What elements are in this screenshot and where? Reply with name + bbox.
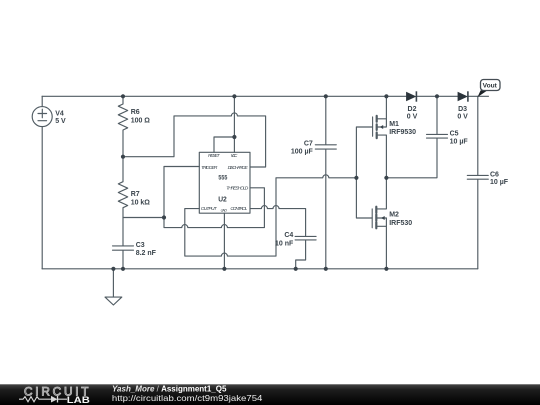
node A R6/R7/discharge junction xyxy=(121,155,125,159)
pin RESET xyxy=(208,153,221,159)
label C5 value 10 uF xyxy=(450,138,469,145)
svg-text:LAB: LAB xyxy=(67,395,90,405)
svg-text:D3: D3 xyxy=(458,106,467,113)
label D2 value 0 V xyxy=(407,113,418,120)
svg-text:Yash_More / Assignment1_Q5: Yash_More / Assignment1_Q5 xyxy=(112,384,227,393)
svg-text:100 Ω: 100 Ω xyxy=(131,117,151,124)
label C6 designator xyxy=(490,171,499,178)
svg-text:THRESHOLD: THRESHOLD xyxy=(226,186,248,192)
svg-text:V4: V4 xyxy=(55,110,64,117)
wire node B (R7/C3) to TRIGGER junction xyxy=(123,217,164,219)
svg-text:C7: C7 xyxy=(304,141,313,148)
label C6 value 10 uF xyxy=(490,179,509,186)
label D3 value 0 V xyxy=(457,113,468,120)
ground symbol xyxy=(105,269,122,305)
label M1 value IRF9530 xyxy=(389,129,416,136)
label M1 designator xyxy=(389,121,399,128)
svg-text:IRF9530: IRF9530 xyxy=(389,129,416,136)
M2 body arrow xyxy=(381,216,385,220)
label R6 value 100 Ohm xyxy=(131,117,151,124)
svg-text:DISCHARGE: DISCHARGE xyxy=(228,165,249,171)
label C4 value 10 nF xyxy=(275,240,294,247)
pin TRIGGER xyxy=(201,165,218,171)
svg-text:10 nF: 10 nF xyxy=(275,240,294,247)
label R7 designator xyxy=(131,191,140,198)
node VCC top rail junction xyxy=(232,94,236,98)
svg-text:R7: R7 xyxy=(131,191,140,198)
wire D3 cathode to Vout stub xyxy=(468,95,489,97)
svg-text:10 µF: 10 µF xyxy=(450,138,469,145)
svg-text:IRF530: IRF530 xyxy=(389,220,412,227)
svg-text:C5: C5 xyxy=(450,131,459,138)
label R7 value 10 kOhm xyxy=(131,199,151,206)
label C7 value 100 uF xyxy=(291,148,314,155)
node B trigger/threshold junction xyxy=(162,215,166,219)
svg-text:100 µF: 100 µF xyxy=(291,148,314,155)
resistor R7 10 kOhm xyxy=(118,157,127,218)
pin OUTPUT xyxy=(201,206,218,212)
diode D2 xyxy=(406,91,416,101)
capacitor C5 10 uF xyxy=(427,96,448,138)
node C7 top rail junction xyxy=(324,94,328,98)
wire VCC pin to top rail xyxy=(233,96,235,152)
wire top supply rail V4 to D2 anode xyxy=(42,95,406,97)
svg-text:555: 555 xyxy=(218,175,227,182)
wire M1/M2 drain node to C5 bottom plate xyxy=(386,138,437,178)
capacitor C6 10 uF xyxy=(467,96,488,268)
svg-text:C3: C3 xyxy=(136,242,145,249)
pin GND xyxy=(221,208,228,212)
node ground rail junction xyxy=(111,267,115,271)
node MOSFET drains junction xyxy=(384,176,388,180)
svg-text:C6: C6 xyxy=(490,171,499,178)
net flag Vout xyxy=(478,80,501,98)
node M2 source bottom junction xyxy=(384,267,388,271)
label D3 designator xyxy=(458,106,467,113)
label C3 value 8.2 nF xyxy=(136,250,157,257)
svg-text:D2: D2 xyxy=(408,106,417,113)
wire node A (R6/R7) to 555 DISCHARGE pin with hop over VCC wire xyxy=(123,113,266,167)
resistor R6 100 Ohm xyxy=(118,96,127,156)
pin DISCHARGE xyxy=(228,165,249,171)
wire node B to THRESHOLD pin with hops over OUTPUT and GND wires xyxy=(164,188,264,228)
node C4 bottom junction xyxy=(294,267,298,271)
node GND pin bottom junction xyxy=(222,267,226,271)
svg-text:U2: U2 xyxy=(218,195,227,204)
capacitor C4 10 nF xyxy=(295,236,316,268)
svg-text:10 µF: 10 µF xyxy=(490,179,509,186)
wire D2 cathode to D3 anode xyxy=(416,95,457,97)
wire OUTPUT pin to MOSFET gate node with hops over GND wire and C7 wire xyxy=(185,175,357,256)
wire GND pin to bottom rail xyxy=(223,213,225,269)
label V4 value 5 V xyxy=(55,118,66,125)
wire bottom ground rail xyxy=(42,268,478,270)
node C5 top rail junction xyxy=(435,94,439,98)
node R6 top rail junction xyxy=(121,94,125,98)
label C7 designator xyxy=(304,141,313,148)
pin CONTROL xyxy=(230,206,247,212)
node C3 bottom junction xyxy=(121,267,125,271)
diode D3 xyxy=(458,91,468,101)
wire gate node to M1 gate xyxy=(356,127,372,178)
label D2 designator xyxy=(408,106,417,113)
label M2 value IRF530 xyxy=(389,220,412,227)
svg-text:10 kΩ: 10 kΩ xyxy=(131,199,151,206)
label C4 designator xyxy=(284,232,293,239)
svg-text:R6: R6 xyxy=(131,109,140,116)
svg-text:RESET: RESET xyxy=(208,153,221,159)
voltage source V4 5 V xyxy=(32,96,52,268)
svg-text:0 V: 0 V xyxy=(407,113,418,120)
svg-text:Vout: Vout xyxy=(483,83,498,90)
svg-text:C4: C4 xyxy=(284,232,293,239)
label C3 designator xyxy=(136,242,145,249)
label M2 designator xyxy=(389,212,399,219)
svg-text:M2: M2 xyxy=(389,212,399,219)
svg-text:http://circuitlab.com/ct9m93ja: http://circuitlab.com/ct9m93jake754 xyxy=(112,393,263,403)
wire CONTROL pin to C4 with hops over THRESHOLD and OUTPUT wires xyxy=(250,206,306,237)
svg-text:CONTROL: CONTROL xyxy=(230,206,247,212)
svg-text:M1: M1 xyxy=(389,121,399,128)
capacitor C7 100 uF xyxy=(315,96,336,268)
transistor M1 IRF9530 PMOS xyxy=(373,96,387,178)
wire gate node to M2 gate xyxy=(356,178,372,218)
svg-text:5 V: 5 V xyxy=(55,118,66,125)
pin THRESHOLD xyxy=(226,186,248,192)
svg-text:TRIGGER: TRIGGER xyxy=(201,165,218,171)
label R6 designator xyxy=(131,109,140,116)
wire TRIGGER pin to node B xyxy=(164,167,199,218)
svg-text:VCC: VCC xyxy=(231,153,238,159)
op-amp/timer U2 555 body box xyxy=(199,152,250,213)
pin VCC xyxy=(231,153,238,159)
svg-text:8.2 nF: 8.2 nF xyxy=(136,250,157,257)
label 555 part name xyxy=(218,175,227,182)
transistor M2 IRF530 NMOS xyxy=(372,178,386,269)
label V4 designator xyxy=(55,110,64,117)
node C7 bottom junction xyxy=(324,267,328,271)
node M1 source top rail junction xyxy=(384,94,388,98)
wire RESET pin to VCC wire xyxy=(214,137,234,152)
label U2 designator xyxy=(218,195,227,204)
footer CircuitLab banner xyxy=(0,384,540,405)
svg-text:OUTPUT: OUTPUT xyxy=(201,206,218,212)
node MOSFET gates junction xyxy=(354,176,358,180)
capacitor C3 8.2 nF xyxy=(113,218,134,269)
node RESET/VCC junction xyxy=(232,135,236,139)
M1 body arrow xyxy=(380,125,383,129)
svg-text:0 V: 0 V xyxy=(457,113,468,120)
svg-text:GND: GND xyxy=(221,208,228,212)
label C5 designator xyxy=(450,131,459,138)
